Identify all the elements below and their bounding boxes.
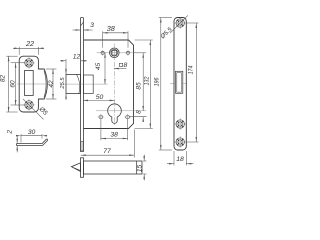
svg-text:18: 18 [176, 156, 184, 163]
dimension 85 hub to cylinder [134, 53, 146, 111]
svg-text:8: 8 [135, 110, 142, 114]
dimension 3 faceplate thickness [73, 22, 95, 31]
svg-text:30: 30 [28, 129, 36, 136]
svg-text:45: 45 [95, 63, 102, 71]
svg-text:25.5: 25.5 [60, 77, 66, 90]
dimension 15 case depth [136, 155, 146, 181]
svg-text:2: 2 [6, 130, 13, 135]
dimension 8 cylinder screw offset [129, 110, 147, 122]
dimension 82 strike plate height [0, 56, 18, 112]
dimension 60 screw spacing [10, 63, 25, 105]
dimension 77 case width [81, 130, 135, 158]
diameter 5 screw hole label [23, 99, 49, 120]
strike plate side view [16, 139, 47, 145]
dimension 38 handle screw spacing [103, 24, 128, 48]
faceplate front view outline [174, 18, 186, 151]
dimension 174 screw spacing faceplate [186, 23, 199, 142]
svg-text:174: 174 [188, 65, 195, 74]
svg-text:196: 196 [154, 77, 161, 86]
dimension 2 plate thickness [6, 130, 18, 153]
faceplate top screw hole [175, 17, 186, 28]
svg-text:77: 77 [103, 148, 111, 155]
euro cylinder hole [108, 104, 122, 123]
dimension 18 faceplate width [167, 151, 194, 166]
cylinder axis centerline [114, 62, 116, 125]
dimension 196 faceplate length [154, 18, 172, 151]
lock case outline [84, 40, 134, 129]
spindle hub [110, 48, 120, 58]
svg-text:82: 82 [0, 75, 7, 83]
dimension 42 lip height [46, 69, 57, 99]
faceplate latch opening [170, 71, 187, 93]
svg-text:132: 132 [144, 76, 151, 85]
dimension 22 strike plate width [13, 39, 44, 55]
faceplate bottom screw hole lower [175, 136, 186, 147]
lock faceplate front strip [81, 18, 84, 152]
square 8 spindle label [114, 62, 128, 70]
svg-text:60: 60 [10, 80, 17, 88]
cylinder centerline [96, 110, 146, 112]
cylinder screw hole left [98, 114, 104, 120]
dimension 132 case height [135, 40, 153, 129]
strike plate screw hole bottom [23, 99, 34, 110]
svg-text:22: 22 [25, 39, 34, 48]
latch bolt bottom view [71, 163, 80, 172]
handle screw hole right [125, 50, 131, 56]
strike plate latch window [25, 70, 34, 95]
strike plate front view outline [17, 56, 49, 112]
dimension 12 latch projection [60, 53, 87, 72]
svg-text:15: 15 [136, 165, 143, 173]
svg-text:38: 38 [107, 24, 116, 33]
dimension 45 hub to latch [95, 53, 106, 84]
handle screw hole left [100, 50, 106, 56]
cylinder screw hole right [124, 114, 130, 120]
diameter 5.5 label [159, 15, 187, 41]
svg-text:42: 42 [48, 80, 55, 88]
svg-text:50: 50 [96, 94, 104, 101]
latch centerline [63, 83, 108, 85]
hub centerlines [97, 44, 135, 61]
dimension 50 backset [83, 94, 115, 101]
svg-text:3: 3 [90, 22, 94, 29]
dimension 30 side view length [16, 129, 47, 143]
svg-text:12: 12 [73, 53, 81, 60]
lock bottom view body [81, 158, 143, 178]
strike plate screw hole top [23, 57, 34, 68]
dimension 38 cylinder screw spacing [101, 120, 128, 141]
latch bolt front view [66, 74, 93, 93]
svg-text:85: 85 [135, 82, 142, 90]
svg-text:8: 8 [124, 62, 128, 69]
faceplate bottom screw hole upper [175, 118, 186, 129]
svg-text:38: 38 [110, 131, 118, 138]
dimension 25.5 latch height [60, 68, 67, 100]
